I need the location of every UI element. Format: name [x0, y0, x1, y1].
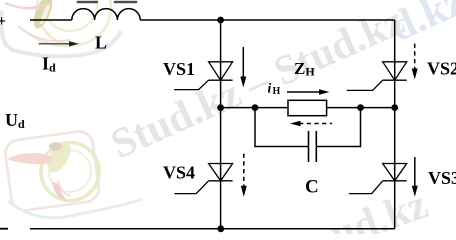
svg-text:L: L [95, 33, 107, 53]
terminal minus [0, 228, 8, 230]
wire capacitor branch left [255, 108, 308, 147]
thyristor VS1 [174, 62, 233, 90]
wire bottom return [30, 228, 395, 230]
inductor L [72, 1, 140, 20]
svg-text:i: i [268, 81, 272, 96]
thyristor VS4 [174, 164, 232, 194]
dashed arrow reverse load current [290, 121, 332, 126]
capacitor C [309, 131, 317, 162]
node bus right [391, 104, 398, 111]
wire top bus [140, 19, 395, 21]
thyristor VS2 [347, 62, 407, 91]
node bus left [217, 104, 224, 111]
current arrow at VS4 (dashed down) [241, 154, 247, 197]
svg-text:VS4: VS4 [163, 163, 195, 183]
resistor ZH load box [288, 100, 327, 115]
watermark text row middle [104, 0, 411, 168]
svg-text:VS2: VS2 [427, 59, 456, 79]
node bottom junction [217, 225, 224, 232]
watermark logo top-left [1, 0, 121, 56]
svg-text:C: C [305, 177, 319, 198]
current arrow at VS1 (solid down) [240, 47, 246, 88]
node capacitor right [357, 104, 364, 111]
wire capacitor branch right [316, 108, 360, 147]
thyristor VS3 [349, 164, 407, 194]
watermark text row top-right [383, 0, 456, 51]
wire load bus right [327, 107, 395, 109]
current arrow at VS3 (solid down) [412, 157, 418, 197]
wire load bus left [221, 107, 288, 109]
wire left bridge leg [220, 20, 222, 229]
svg-text:+: + [0, 13, 6, 30]
node top junction [217, 17, 224, 24]
wire right bridge leg [394, 20, 396, 229]
current arrow Id [39, 41, 79, 46]
svg-text:VS3: VS3 [428, 168, 456, 188]
wire top-left feeder [30, 19, 72, 21]
node capacitor left [252, 104, 259, 111]
current arrow iH [287, 89, 330, 94]
watermark text row bottom-right [325, 181, 434, 240]
svg-text:H: H [273, 86, 281, 97]
watermark logo bottom-left [4, 130, 143, 218]
current arrow at VS2 (dashed down) [412, 44, 418, 80]
svg-text:VS1: VS1 [163, 59, 195, 79]
